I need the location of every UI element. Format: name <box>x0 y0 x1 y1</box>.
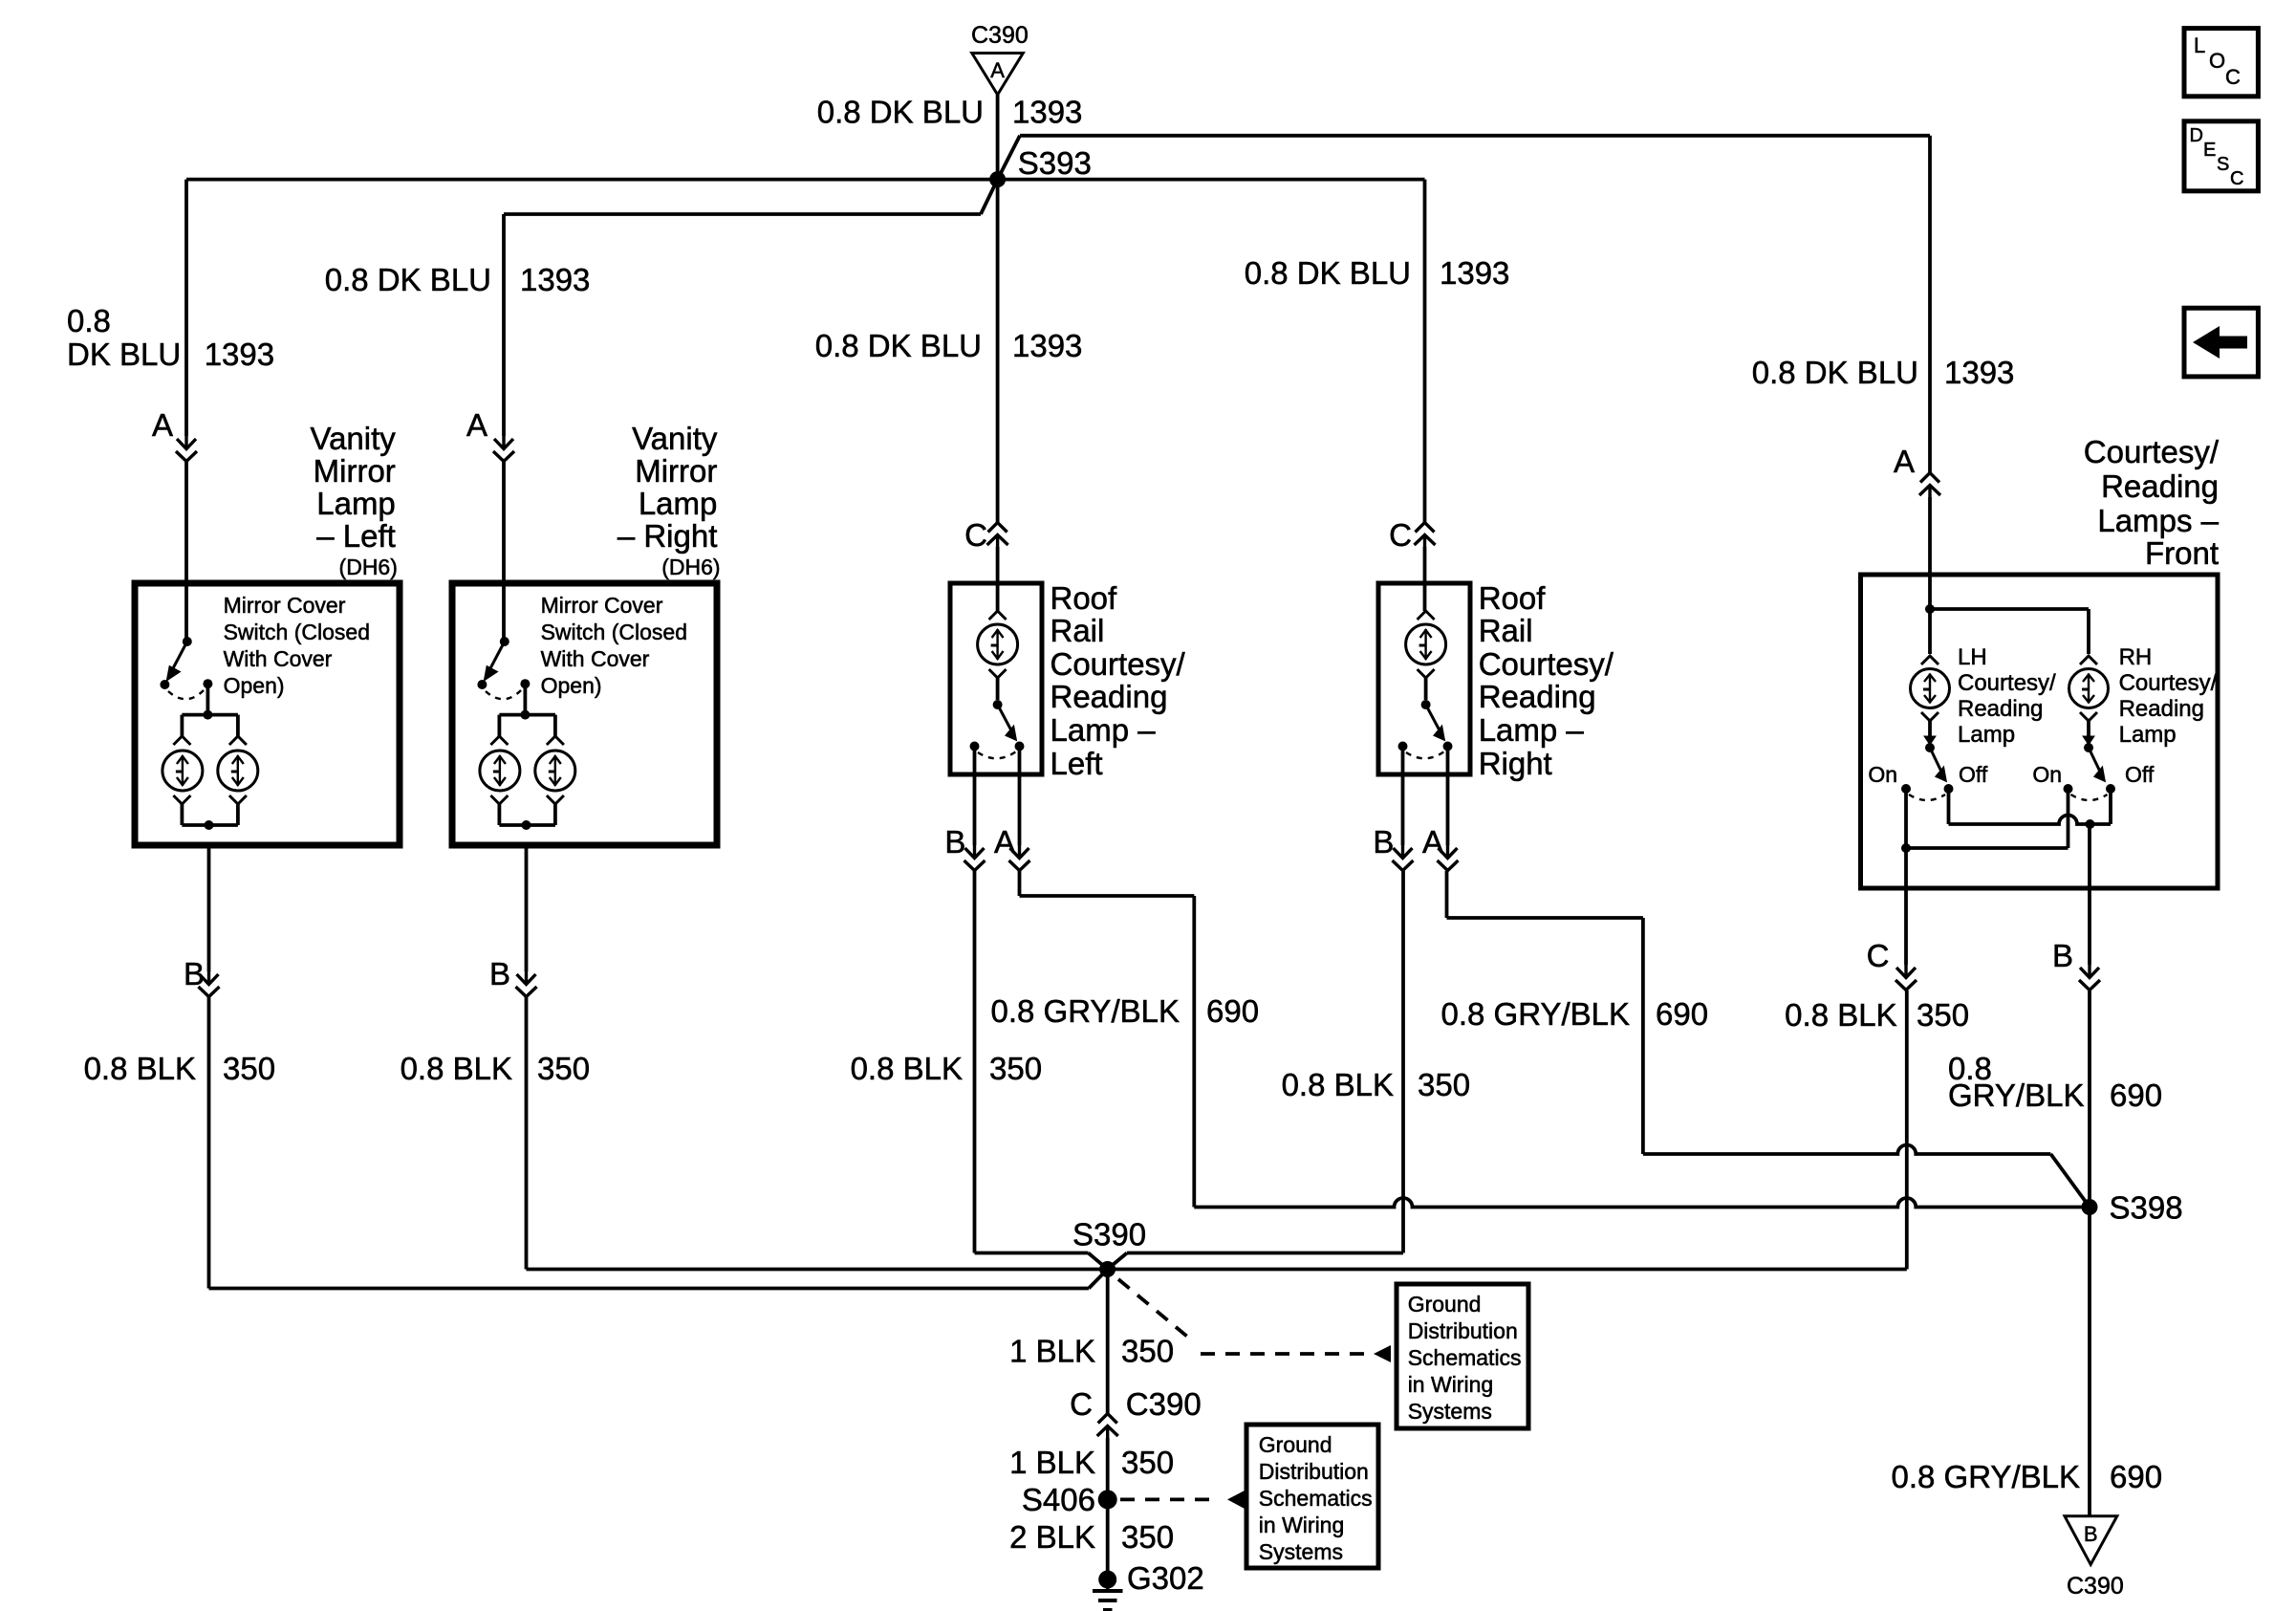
svg-text:D: D <box>2190 125 2203 146</box>
svg-text:Ground: Ground <box>1408 1292 1482 1317</box>
connector arrow A (front lamps) <box>1894 444 1940 498</box>
svg-text:– Right: – Right <box>617 518 718 554</box>
wire: S398 down to C390 pin B <box>2088 1208 2091 1516</box>
svg-text:With Cover: With Cover <box>224 646 333 671</box>
label 0.8 DK BLU 1393 (roof-right) <box>1245 255 1510 291</box>
back-arrow box <box>2184 308 2258 377</box>
label Vanity Mirror Lamp - Right (DH6) <box>617 421 721 579</box>
svg-text:1393: 1393 <box>1944 355 2014 390</box>
svg-text:0.8 DK BLU: 0.8 DK BLU <box>1752 355 1918 390</box>
wire: S393 diagonal to upper-right branch <box>998 136 1020 180</box>
svg-text:0.8 DK BLU: 0.8 DK BLU <box>1245 255 1411 291</box>
svg-text:Vanity: Vanity <box>311 421 397 456</box>
svg-text:G302: G302 <box>1127 1560 1204 1596</box>
svg-text:(DH6): (DH6) <box>661 555 720 579</box>
label 0.8 GRY/BLK 690 (front B, 2 lines) <box>1948 1051 2162 1113</box>
label LH Courtesy/Reading Lamp <box>1958 644 2056 748</box>
svg-text:Lamp –: Lamp – <box>1479 712 1585 748</box>
svg-text:690: 690 <box>2110 1078 2162 1113</box>
label 1 BLK 350 (below C390-C) <box>1009 1445 1174 1480</box>
splice S393 <box>989 145 1092 187</box>
label 0.8 DK BLU 1393 (left vanity, 2 lines) <box>67 303 274 372</box>
mirror cover switch (right) <box>477 637 555 720</box>
svg-text:350: 350 <box>989 1051 1042 1086</box>
svg-text:GRY/BLK: GRY/BLK <box>1948 1078 2084 1113</box>
label 0.8 DK BLU 1393 (roof-left) <box>815 328 1083 363</box>
wire: roof-left B pin down to S390 <box>975 871 1108 1270</box>
svg-text:S390: S390 <box>1072 1216 1146 1252</box>
label 0.8 BLK 350 (right vanity) <box>401 1051 590 1086</box>
note box: Ground Distribution Schematics in Wiring Systems (lower) <box>1246 1425 1378 1568</box>
svg-text:Roof: Roof <box>1479 580 1547 616</box>
label Courtesy/Reading Lamps - Front <box>2084 434 2220 571</box>
svg-text:Vanity: Vanity <box>632 421 718 456</box>
connector arrow C (front, ground pin) <box>1867 938 1917 991</box>
svg-text:Schematics: Schematics <box>1408 1345 1522 1370</box>
wire: RH On down-left to LH On wire <box>1901 789 2069 853</box>
wire: C390-C down to splice S406 <box>1106 1438 1110 1499</box>
label 0.8 DK BLU 1393 (right vanity) <box>325 262 591 297</box>
wire: front C pin down to S390 bus <box>1905 991 1909 1270</box>
svg-text:0.8 BLK: 0.8 BLK <box>851 1051 963 1086</box>
svg-text:RH: RH <box>2119 644 2153 670</box>
svg-text:On: On <box>2032 762 2062 787</box>
LH courtesy lamp bulb <box>1911 656 1950 745</box>
roof lamp pin wires (left) <box>975 747 1020 846</box>
splice S390 <box>1072 1216 1146 1277</box>
svg-text:A: A <box>994 824 1015 860</box>
lamp common junction (right) <box>499 820 555 830</box>
wire: left vanity feed drop <box>184 180 188 436</box>
label 0.8 BLK 350 (left vanity) <box>84 1051 275 1086</box>
svg-text:Courtesy/: Courtesy/ <box>1958 670 2056 696</box>
wire: S390 bus to front C wire <box>1108 1268 1907 1272</box>
svg-text:0.8 GRY/BLK: 0.8 GRY/BLK <box>1440 996 1630 1032</box>
note box: Ground Distribution Schematics in Wiring Systems (upper) <box>1397 1284 1528 1428</box>
svg-text:Lamp: Lamp <box>316 486 396 521</box>
RH lamp switch <box>2064 743 2116 800</box>
wire: LH On (C pin) through box bottom <box>1904 789 1908 965</box>
svg-text:Systems: Systems <box>1408 1399 1492 1424</box>
svg-text:Open): Open) <box>541 673 602 698</box>
svg-text:350: 350 <box>1121 1519 1174 1555</box>
label RH Courtesy/Reading Lamp <box>2119 644 2218 748</box>
svg-text:Reading: Reading <box>2101 468 2219 504</box>
labels On Off (RH) <box>2032 762 2155 787</box>
svg-text:C390: C390 <box>971 22 1029 49</box>
svg-text:Switch (Closed: Switch (Closed <box>224 620 370 644</box>
svg-text:690: 690 <box>2110 1459 2162 1494</box>
dashed reference from S406 to ground distribution note <box>1120 1491 1245 1509</box>
svg-text:1393: 1393 <box>1012 95 1082 130</box>
svg-text:Mirror Cover: Mirror Cover <box>541 593 663 618</box>
wire: roof-right feed drop <box>1423 180 1427 522</box>
svg-text:Roof: Roof <box>1051 580 1118 616</box>
label 0.8 BLK 350 (front C) <box>1785 997 1969 1033</box>
svg-text:350: 350 <box>1121 1334 1174 1369</box>
RH courtesy lamp bulb <box>2069 656 2109 745</box>
svg-text:Lamp: Lamp <box>639 486 718 521</box>
svg-text:Lamp: Lamp <box>1958 722 2015 748</box>
svg-text:B: B <box>944 824 965 860</box>
connector arrow C390 pin C <box>1070 1386 1202 1439</box>
component box: Roof Rail Courtesy/Reading Lamp - Right <box>1378 583 1470 774</box>
label Vanity Mirror Lamp - Left (DH6) <box>311 421 398 579</box>
svg-text:0.8 DK BLU: 0.8 DK BLU <box>817 95 984 130</box>
svg-text:0.8 BLK: 0.8 BLK <box>1282 1067 1394 1102</box>
svg-text:E: E <box>2203 140 2216 161</box>
label 0.8 GRY/BLK 690 (bottom right) <box>1891 1459 2162 1494</box>
svg-text:L: L <box>2194 33 2205 57</box>
label Roof Rail Courtesy/Reading Lamp - Left <box>1051 580 1186 781</box>
svg-text:350: 350 <box>1917 997 1969 1033</box>
wire: right vanity B pin down to S390 bus <box>527 845 1108 1270</box>
svg-text:A: A <box>1894 444 1915 479</box>
labels On Off (LH) <box>1868 762 1988 787</box>
svg-text:A: A <box>990 58 1005 82</box>
svg-text:Off: Off <box>1959 762 1988 787</box>
connector arrow C (roof-right) <box>1389 517 1435 553</box>
connector arrow B (right vanity) <box>489 956 537 997</box>
svg-text:0.8: 0.8 <box>67 303 111 338</box>
svg-text:Distribution: Distribution <box>1259 1459 1369 1484</box>
label 1 BLK 350 (above C390-C) <box>1009 1334 1174 1369</box>
svg-text:Distribution: Distribution <box>1408 1318 1518 1343</box>
svg-text:A: A <box>152 407 173 443</box>
LOC reference box <box>2184 29 2258 97</box>
svg-text:C: C <box>1070 1386 1093 1422</box>
svg-text:DK BLU: DK BLU <box>67 337 181 372</box>
svg-text:0.8 GRY/BLK: 0.8 GRY/BLK <box>1891 1459 2080 1494</box>
svg-text:Reading: Reading <box>2119 696 2204 722</box>
svg-text:0.8 DK BLU: 0.8 DK BLU <box>815 328 982 363</box>
svg-text:1393: 1393 <box>205 337 274 372</box>
svg-text:1393: 1393 <box>1012 328 1082 363</box>
svg-text:B: B <box>1373 824 1394 860</box>
svg-text:1393: 1393 <box>520 262 590 297</box>
wire: S393 horizontal bus to left vanity and right roof <box>186 178 1425 182</box>
label 0.8 GRY/BLK 690 (roof-left A) <box>990 993 1259 1029</box>
wire: S406 down to ground G302 <box>1106 1499 1110 1576</box>
svg-text:Mirror: Mirror <box>314 453 396 489</box>
wire: left vanity B pin down to S390 <box>209 845 1108 1289</box>
svg-text:– Left: – Left <box>316 518 396 554</box>
svg-text:Ground: Ground <box>1259 1432 1332 1457</box>
splice S398 <box>2082 1190 2183 1226</box>
label 0.8 BLK 350 (roof-left B) <box>851 1051 1042 1086</box>
component box: Roof Rail Courtesy/Reading Lamp - Left <box>950 583 1042 774</box>
svg-text:Switch (Closed: Switch (Closed <box>541 620 687 644</box>
svg-text:Reading: Reading <box>1051 679 1168 714</box>
svg-text:350: 350 <box>1121 1445 1174 1480</box>
svg-text:Reading: Reading <box>1958 696 2043 722</box>
svg-text:Rail: Rail <box>1479 613 1533 648</box>
svg-text:in Wiring: in Wiring <box>1408 1372 1493 1397</box>
svg-text:C: C <box>964 517 987 553</box>
svg-text:Right: Right <box>1479 746 1552 781</box>
ground G302 <box>1093 1560 1204 1610</box>
svg-text:Lamp –: Lamp – <box>1051 712 1157 748</box>
connector C390 pin A (top triangle) <box>971 22 1029 95</box>
svg-text:Courtesy/: Courtesy/ <box>1051 646 1186 682</box>
connector arrow C (roof-left) <box>964 517 1007 553</box>
svg-text:Off: Off <box>2125 762 2155 787</box>
svg-text:Mirror Cover: Mirror Cover <box>224 593 346 618</box>
roof lamp bulb (left) <box>978 611 1018 700</box>
svg-text:S: S <box>2217 154 2229 175</box>
connector arrows B A (right roof) <box>1373 824 1458 871</box>
front box feed junction <box>1925 604 2089 654</box>
component box: Vanity Mirror Lamp - Left <box>135 583 400 845</box>
component box: Courtesy/Reading Lamps - Front <box>1861 575 2219 888</box>
wire: LH Off to RH Off with hop over RH On wire <box>1949 789 2112 829</box>
wire: roof-left feed drop from S393 <box>996 180 1000 522</box>
vanity lamp bulb 1 (right) <box>480 715 520 825</box>
wire: upper horizontal branch to front lamps feed <box>1020 134 1930 138</box>
roof lamp switch (right) <box>1398 700 1453 758</box>
wire: roof-left A pin to S398 (GRY/BLK 690) <box>1020 871 2090 1208</box>
connector arrow A (right vanity) <box>466 407 514 462</box>
wire: front lamps feed drop <box>1928 136 1932 472</box>
svg-text:690: 690 <box>1206 993 1259 1029</box>
svg-text:Courtesy/: Courtesy/ <box>2119 670 2218 696</box>
connector arrow B (left vanity) <box>184 956 220 997</box>
connector arrows B A (left roof) <box>944 824 1029 871</box>
connector arrow A (left vanity) <box>152 407 197 462</box>
svg-text:A: A <box>466 407 487 443</box>
svg-text:690: 690 <box>1656 996 1708 1032</box>
svg-text:0.8 BLK: 0.8 BLK <box>84 1051 196 1086</box>
vanity lamp bulb 2 (left) <box>218 715 258 825</box>
svg-text:350: 350 <box>537 1051 590 1086</box>
label Mirror Cover Switch text (left) <box>224 593 370 698</box>
connector arrow B (front) <box>2052 938 2100 991</box>
svg-text:350: 350 <box>223 1051 275 1086</box>
svg-text:Systems: Systems <box>1259 1539 1343 1564</box>
svg-text:2 BLK: 2 BLK <box>1009 1519 1095 1555</box>
wire: right vanity feed drop <box>502 214 506 436</box>
svg-text:Courtesy/: Courtesy/ <box>1479 646 1614 682</box>
svg-text:B: B <box>184 956 205 991</box>
label 2 BLK 350 <box>1009 1519 1174 1555</box>
svg-text:in Wiring: in Wiring <box>1259 1513 1344 1537</box>
svg-text:S406: S406 <box>1022 1482 1095 1517</box>
label Mirror Cover Switch text (right) <box>541 593 687 698</box>
svg-text:C390: C390 <box>2067 1573 2124 1600</box>
component box: Vanity Mirror Lamp - Right <box>452 583 717 845</box>
svg-text:C: C <box>2230 168 2243 189</box>
svg-text:1 BLK: 1 BLK <box>1009 1445 1095 1480</box>
svg-text:Schematics: Schematics <box>1259 1486 1373 1511</box>
svg-text:S398: S398 <box>2110 1190 2183 1226</box>
svg-text:B: B <box>2084 1522 2098 1546</box>
wire: roof-right B pin down to S390 <box>1108 871 1403 1270</box>
svg-text:On: On <box>1868 762 1897 787</box>
label 0.8 DK BLU 1393 (top feed) <box>817 95 1083 130</box>
wire: roof-right A pin to S398 (GRY/BLK 690) <box>1447 871 2090 1208</box>
svg-text:With Cover: With Cover <box>541 646 650 671</box>
roof lamp bulb (right) <box>1406 611 1446 700</box>
svg-text:B: B <box>489 956 510 991</box>
svg-text:C: C <box>1389 517 1412 553</box>
lamp common junction (left) <box>182 820 238 830</box>
svg-text:A: A <box>1422 824 1443 860</box>
svg-text:B: B <box>2052 938 2073 973</box>
svg-text:C390: C390 <box>1126 1386 1202 1422</box>
svg-text:S393: S393 <box>1018 145 1092 181</box>
svg-text:Courtesy/: Courtesy/ <box>2084 434 2220 469</box>
label 0.8 GRY/BLK 690 (roof-right A) <box>1440 996 1708 1032</box>
connector C390 pin B (bottom triangle) <box>2065 1516 2124 1600</box>
wire: B pin down through box bottom <box>2088 824 2091 965</box>
svg-text:0.8 GRY/BLK: 0.8 GRY/BLK <box>990 993 1180 1029</box>
svg-text:1393: 1393 <box>1440 255 1509 291</box>
dashed reference from S390 to ground distribution note <box>1118 1279 1391 1362</box>
svg-text:1 BLK: 1 BLK <box>1009 1334 1095 1369</box>
svg-text:Front: Front <box>2145 535 2219 571</box>
svg-text:C: C <box>1867 938 1890 973</box>
wire: front B pin down to S398 <box>2088 991 2091 1208</box>
svg-text:0.8 BLK: 0.8 BLK <box>1785 997 1896 1033</box>
wire: S390 down to C390 pin C <box>1106 1270 1110 1414</box>
vanity lamp bulb 1 (left) <box>162 715 203 825</box>
svg-text:Open): Open) <box>224 673 285 698</box>
label 0.8 DK BLU 1393 (front) <box>1752 355 2015 390</box>
vanity lamp bulb 2 (right) <box>535 715 575 825</box>
svg-text:Left: Left <box>1051 746 1103 781</box>
mirror cover switch (left) <box>160 637 238 720</box>
wire: lower horizontal branch to right vanity <box>504 212 981 216</box>
svg-text:Rail: Rail <box>1051 613 1105 648</box>
LH lamp switch <box>1901 743 1954 800</box>
svg-text:C: C <box>2225 65 2241 89</box>
label Roof Rail Courtesy/Reading Lamp - Right <box>1479 580 1614 781</box>
wire from C390-A down to S393 <box>996 95 1000 180</box>
roof lamp switch (left) <box>970 700 1025 758</box>
svg-text:0.8 BLK: 0.8 BLK <box>401 1051 512 1086</box>
svg-text:O: O <box>2209 49 2225 73</box>
roof lamp pin wires (right) <box>1403 747 1448 846</box>
svg-text:Lamps –: Lamps – <box>2097 503 2219 538</box>
svg-text:Mirror: Mirror <box>635 453 717 489</box>
svg-text:Lamp: Lamp <box>2119 722 2177 748</box>
svg-text:LH: LH <box>1958 644 1987 670</box>
label 0.8 BLK 350 (roof-right B) <box>1282 1067 1470 1102</box>
wire: S393 diagonal to lower-left branch <box>981 180 998 214</box>
svg-text:0.8 DK BLU: 0.8 DK BLU <box>325 262 491 297</box>
splice S406 <box>1022 1482 1117 1517</box>
svg-text:(DH6): (DH6) <box>339 555 398 579</box>
DESC reference box <box>2184 121 2258 191</box>
svg-text:Reading: Reading <box>1479 679 1596 714</box>
svg-text:350: 350 <box>1418 1067 1470 1102</box>
